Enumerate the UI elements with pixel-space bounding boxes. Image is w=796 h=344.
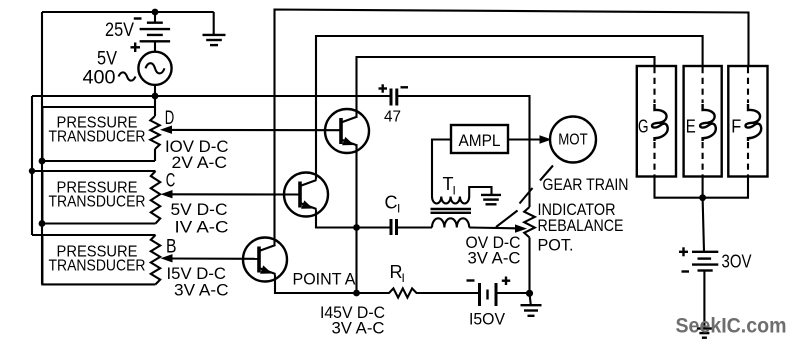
wiper arrow B (to Q3 base) xyxy=(161,254,260,262)
plus sign battery 30V xyxy=(679,247,688,256)
wire: inner-left rail (top wire down to pot bottoms) xyxy=(41,12,43,284)
ground (top, right of 25V battery) xyxy=(203,12,226,45)
junction dot point A xyxy=(353,290,360,297)
svg-text:D: D xyxy=(165,108,175,129)
wire: nested rail 3 (Q1 collector to element G) xyxy=(357,57,655,116)
wire: Q2 emitter to C1 node xyxy=(316,210,390,228)
motor MOT xyxy=(550,117,596,163)
wiper arrow C (to Q2 base) xyxy=(161,190,301,198)
junction dot AC source bottom xyxy=(152,93,159,100)
junction dot inner rail y=224 xyxy=(39,220,46,227)
T1 core xyxy=(431,208,472,210)
wire: bus to battery 30V xyxy=(703,198,704,252)
wire: rebalance pot bottom to ground node xyxy=(528,238,530,294)
transistor Q3 xyxy=(243,238,287,282)
indicator rebalance pot xyxy=(524,207,535,238)
wire: pot C top feed y=171 xyxy=(32,170,156,172)
svg-text:TRANSDUCER: TRANSDUCER xyxy=(49,129,146,146)
wiper arrow D (to Q1 base) xyxy=(160,126,341,134)
svg-text:2V A-C: 2V A-C xyxy=(172,153,228,172)
svg-text:5V: 5V xyxy=(97,49,117,70)
T1 primary winding xyxy=(432,197,469,204)
svg-text:G: G xyxy=(638,117,649,137)
svg-text:5V D-C: 5V D-C xyxy=(171,200,228,219)
svg-text:25V: 25V xyxy=(105,20,134,41)
svg-text:I5OV: I5OV xyxy=(469,310,506,329)
label 400~ xyxy=(83,68,136,89)
wire: secondary to rebalance pot wiper xyxy=(469,224,527,232)
wire: pot B top feed y=235 xyxy=(32,234,156,236)
junction dot battery top xyxy=(152,9,159,16)
svg-text:400: 400 xyxy=(83,68,116,89)
wire: nested rail 1 (Q3 collector to element F) xyxy=(275,10,749,245)
svg-text:POINT A: POINT A xyxy=(293,270,357,289)
svg-text:47: 47 xyxy=(384,109,401,126)
ground (T1 primary) xyxy=(481,194,501,196)
resistor R1 xyxy=(389,288,417,297)
label C1 xyxy=(385,193,401,216)
svg-text:AMPL: AMPL xyxy=(459,132,501,150)
svg-text:SeekIC.com: SeekIC.com xyxy=(676,314,787,338)
ground (30V battery, bottom) xyxy=(697,327,712,329)
svg-text:I: I xyxy=(397,202,400,216)
wire: T1 primary left lead to AMPL xyxy=(432,140,451,197)
potentiometer C xyxy=(151,171,160,224)
wire: element bottoms bus xyxy=(655,177,749,198)
potentiometer B xyxy=(151,235,160,284)
minus sign battery 150V xyxy=(467,279,475,281)
element E box xyxy=(684,66,722,177)
svg-text:GEAR TRAIN: GEAR TRAIN xyxy=(543,175,629,194)
minus sign battery 30V xyxy=(682,270,690,272)
ground (150V / pot) xyxy=(521,293,542,316)
mechanical link dashes (motor to pot) xyxy=(520,166,554,204)
svg-text:3OV: 3OV xyxy=(722,252,752,272)
capacitor 47 xyxy=(391,89,397,106)
battery 25V xyxy=(140,12,171,52)
svg-text:F: F xyxy=(731,117,741,137)
junction dot outer rail y=171 xyxy=(29,168,35,174)
mechanical link dash at wiper xyxy=(496,211,518,228)
wire: top-left horizontal (battery top rail to ground) xyxy=(42,11,214,13)
wire: pot D bottom return y=161 xyxy=(42,160,155,162)
plus sign cap 47 xyxy=(379,84,388,92)
svg-text:IV A-C: IV A-C xyxy=(175,218,229,237)
plus sign battery 150V xyxy=(502,277,510,286)
junction dot inner rail y=161 xyxy=(39,158,46,165)
svg-text:E: E xyxy=(686,117,696,137)
wire+arrow: AMPL output to MOT xyxy=(508,135,552,143)
battery 30V xyxy=(692,252,718,271)
svg-text:I: I xyxy=(402,271,405,285)
wire: main horizontal feed y=96 (source to cap 47) xyxy=(32,95,390,97)
wire: battery 150V to ground node xyxy=(496,292,530,294)
wire: outer-left rail xyxy=(31,96,33,235)
junction dot bus xyxy=(699,194,706,201)
minus sign of 25V battery xyxy=(134,17,142,19)
pressure transducer box 3 xyxy=(42,235,155,284)
element F box xyxy=(728,66,767,177)
svg-text:POT.: POT. xyxy=(538,236,574,255)
element G box xyxy=(637,66,676,177)
pressure transducer box 1 xyxy=(42,107,155,161)
svg-text:3V A-C: 3V A-C xyxy=(174,281,229,300)
AC source 5V 400Hz xyxy=(138,52,171,96)
wire: R1 to battery 150V xyxy=(416,292,479,294)
wire: cap 47 to rebalance pot top xyxy=(397,96,530,207)
svg-text:3V A-C: 3V A-C xyxy=(468,249,521,268)
battery 150V xyxy=(480,283,497,306)
minus sign cap 47 xyxy=(401,86,409,88)
svg-text:I: I xyxy=(453,184,456,198)
junction dot ground node xyxy=(526,290,533,297)
svg-text:TRANSDUCER: TRANSDUCER xyxy=(49,258,146,275)
svg-text:MOT: MOT xyxy=(558,132,588,149)
capacitor C1 xyxy=(391,219,397,235)
svg-text:C: C xyxy=(166,171,176,192)
wire: Q3 emitter to point A xyxy=(275,275,390,294)
svg-text:TRANSDUCER: TRANSDUCER xyxy=(49,194,146,211)
transformer T1 xyxy=(431,174,472,228)
label R1 xyxy=(390,262,405,285)
potentiometer D xyxy=(150,96,159,161)
plus sign of AC source xyxy=(131,43,141,53)
svg-text:3V A-C: 3V A-C xyxy=(332,319,385,338)
junction dot C1 node xyxy=(353,224,360,231)
transistor Q1 xyxy=(325,109,369,153)
svg-text:REBALANCE: REBALANCE xyxy=(538,216,624,235)
wire: Q1 emitter down to node A riser xyxy=(355,146,357,294)
pressure transducer box 2 xyxy=(42,171,155,224)
transistor Q2 xyxy=(284,173,328,217)
svg-text:B: B xyxy=(166,237,177,258)
wire: nested rail 2 (Q2 collector to element E) xyxy=(316,36,703,180)
wire: T1 primary right lead to ground xyxy=(469,187,491,197)
amplifier box AMPL xyxy=(451,125,508,153)
T1 secondary winding xyxy=(432,218,469,227)
wire: C1 to transformer secondary xyxy=(397,226,433,228)
wire: battery 30V to ground xyxy=(703,271,705,329)
svg-text:C: C xyxy=(385,193,398,213)
